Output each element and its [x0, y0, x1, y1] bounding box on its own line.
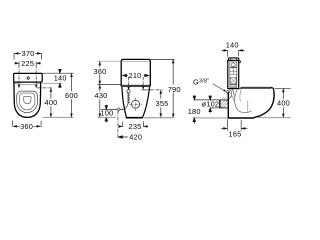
dim 210 arrow onto hole — [127, 87, 130, 91]
o102 top line — [194, 99, 219, 101]
dim 225 arrows — [15, 62, 40, 65]
dim 235 outside lines — [118, 125, 148, 127]
flush button diamond — [27, 77, 30, 80]
svg-text:355: 355 — [156, 99, 169, 108]
lid shadow curve — [15, 83, 42, 84]
dim 360 arrows — [13, 125, 41, 128]
dim 370 extension brackets — [14, 53, 42, 59]
base bottom thick — [228, 117, 255, 119]
dim 360 brackets — [13, 121, 42, 127]
dim 210 left arrow — [123, 74, 128, 77]
dim 235 arrows — [119, 125, 148, 128]
svg-text:370: 370 — [22, 49, 35, 58]
G3/8 leader — [213, 84, 226, 92]
dim 100 arrow top — [105, 105, 108, 110]
svg-text:165: 165 — [229, 130, 242, 139]
dim 790 arrows — [172, 60, 175, 118]
dim 400r — [282, 88, 284, 117]
dim 210 centerline right — [142, 77, 144, 87]
dim 400 top extension — [275, 87, 291, 89]
dim 420 arrow — [118, 136, 127, 139]
dim 180 arrow top — [193, 95, 196, 100]
dim 400 — [50, 88, 52, 117]
side fixing diamond — [117, 108, 120, 111]
svg-text:360: 360 — [20, 122, 33, 131]
dim 370 arrows — [14, 52, 41, 55]
svg-text:400: 400 — [45, 98, 58, 107]
dim 140 top extension — [43, 72, 74, 74]
hinge arrow left — [18, 85, 21, 89]
dim 600 — [71, 73, 73, 117]
mechanism box — [231, 78, 237, 84]
dim 360 line — [13, 125, 42, 127]
dim 225 outside lines — [14, 62, 41, 64]
dim 400 arrows — [50, 88, 53, 117]
rim line to 355 — [142, 89, 151, 91]
svg-text:790: 790 — [168, 85, 181, 94]
dim 140 arrow bottom — [59, 83, 62, 88]
seat lid top line — [240, 86, 270, 88]
o102 arrow bottom — [209, 108, 212, 113]
cistern (plan) — [14, 73, 43, 82]
cistern lid lip — [239, 61, 241, 63]
mechanism box hatch — [231, 78, 237, 84]
mechanism band2 — [230, 84, 237, 85]
dim 140 extensions — [228, 50, 239, 57]
bowl right side — [143, 87, 150, 117]
pipe hatch — [221, 100, 228, 107]
G3/8 leader arrow — [223, 89, 226, 92]
seat inner ring — [19, 93, 35, 110]
left extension top (tank lid) — [97, 60, 121, 62]
seat outer ring — [17, 91, 38, 113]
hinge centerline right — [35, 65, 37, 85]
o102 bottom line — [210, 107, 219, 109]
cistern lid seam — [121, 61, 150, 63]
svg-text:140: 140 — [226, 41, 239, 50]
svg-text:400: 400 — [277, 99, 290, 108]
dim 370 line — [14, 52, 42, 54]
fixing hole — [127, 90, 130, 93]
svg-text:180: 180 — [188, 107, 201, 116]
outlet pipe — [219, 100, 228, 108]
button split — [231, 58, 237, 60]
svg-text:420: 420 — [129, 133, 142, 142]
mechanism outer — [230, 62, 237, 87]
bowl left side — [122, 87, 126, 117]
seat line — [239, 88, 272, 90]
floor extension right (gray) — [258, 117, 291, 119]
dim 400r arrows — [282, 88, 285, 117]
floor extension (gray) — [193, 117, 228, 119]
dim 180 arrow bottom — [193, 118, 196, 124]
cistern front — [121, 59, 150, 86]
dim 360v arrows — [99, 61, 102, 84]
o102 arrow top — [209, 95, 212, 100]
flush button — [228, 58, 239, 61]
water surface shape — [23, 97, 31, 104]
dim 225 ticks — [19, 62, 36, 65]
dim 420 bracket — [117, 111, 119, 138]
trap vertical — [247, 101, 249, 113]
fixing line — [101, 108, 124, 110]
tank bottom lines — [121, 85, 150, 86]
dim 140 arrows — [224, 49, 243, 52]
svg-text:600: 600 — [65, 91, 78, 100]
dim 140 arrow top — [59, 69, 62, 73]
dim 360v — [99, 61, 101, 84]
dim 165 lines — [221, 127, 247, 129]
svg-text:225: 225 — [21, 59, 34, 68]
svg-text:210: 210 — [129, 71, 142, 80]
dim 790 — [172, 60, 174, 118]
dim 165 arrows — [223, 127, 245, 130]
mechanism lines — [230, 68, 237, 86]
outlet circle — [132, 100, 140, 108]
svg-text:360: 360 — [94, 67, 107, 76]
dim 355 — [160, 90, 162, 117]
float circle — [231, 63, 235, 67]
inlet squiggle — [229, 89, 234, 99]
trap curve 1 — [235, 89, 252, 113]
front top corner — [271, 87, 274, 91]
hinge centerline left — [18, 65, 20, 85]
bowl outline (plan) — [14, 82, 41, 117]
svg-text:140: 140 — [54, 74, 67, 83]
svg-text:430: 430 — [95, 91, 108, 100]
dim 790 top extension — [151, 58, 175, 60]
svg-text:100: 100 — [101, 109, 114, 118]
dim 165 extensions — [227, 119, 241, 130]
dim 140 lines — [221, 49, 244, 51]
base bottom thick — [126, 117, 143, 119]
svg-text:ø102: ø102 — [202, 100, 220, 109]
dim 140 bottom extension (gray) — [43, 82, 62, 84]
outlet crosshair — [129, 98, 142, 111]
dim 210 centerline left — [128, 77, 130, 87]
fixing bolt coil — [125, 93, 130, 109]
floor extension left (gray) — [97, 116, 115, 118]
dim 210 arrow onto rim — [142, 86, 145, 90]
cistern side — [228, 60, 239, 88]
hinge dash-dot to 400 — [37, 87, 52, 89]
floor extension right — [144, 117, 174, 119]
trap curve 2 — [240, 89, 241, 102]
bowl front curve — [254, 92, 274, 118]
dim 235 brackets — [123, 121, 144, 127]
pipe top ticks — [222, 97, 226, 99]
dim 355 arrows — [160, 90, 163, 117]
dim 100 arrow bottom — [105, 117, 108, 122]
svg-text:235: 235 — [129, 122, 142, 131]
trap back curve — [231, 96, 234, 102]
pipe flange — [220, 100, 222, 108]
left extension seat — [97, 84, 121, 86]
mechanism band1 — [230, 67, 237, 68]
inlet fitting — [227, 91, 230, 94]
dim 600 arrows — [70, 73, 73, 117]
dim 430 — [99, 85, 101, 118]
bowl back edge — [227, 92, 229, 118]
rim dashdot to 355 — [151, 89, 164, 91]
front edge extension (gray) — [43, 116, 74, 118]
dim 430 arrows — [99, 85, 102, 118]
hinge arrow right — [35, 85, 38, 89]
dim 210 right arrow — [144, 74, 149, 77]
